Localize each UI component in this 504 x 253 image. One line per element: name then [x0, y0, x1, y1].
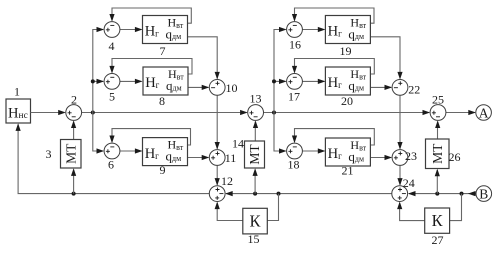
- summing junction 18: [287, 143, 303, 171]
- wire block 21 output to junction 23: [370, 157, 391, 159]
- summing junction 16: [287, 22, 303, 52]
- terminal A: [476, 105, 492, 121]
- wire block 7 output down to junction 10: [188, 37, 218, 79]
- svg-text:19: 19: [340, 44, 352, 58]
- wire junction 6 to block 9: [120, 150, 142, 152]
- wire Нвт feedback loop of block 21: [295, 129, 375, 145]
- svg-text:12: 12: [221, 174, 233, 188]
- block 15 К: [243, 208, 267, 234]
- svg-text:К: К: [432, 211, 444, 230]
- wire Нвт feedback loop of block 9: [112, 129, 191, 145]
- wire junction 18 to block 21: [302, 150, 324, 152]
- block 1 Ннс (input head block): [6, 99, 31, 123]
- summing junction 6: [104, 143, 120, 171]
- wire К 15 output to junction 12: [217, 203, 243, 221]
- wire junction 22 to junction 23 (crosses main bus): [399, 95, 401, 148]
- summing junction 24: [392, 176, 415, 202]
- svg-text:3: 3: [46, 147, 52, 161]
- block 7 Нг/Нвт/qдм: [143, 15, 188, 58]
- wire block 20 output to junction 22: [370, 86, 391, 88]
- svg-text:20: 20: [341, 94, 353, 108]
- wire junction 17 to block 20: [302, 80, 324, 82]
- svg-text:27: 27: [432, 233, 444, 247]
- wire vertical bus down to junction 18: [274, 113, 286, 152]
- block 14 МТ: [245, 141, 265, 168]
- node feeding МТ 3: [72, 192, 76, 196]
- svg-text:10: 10: [226, 81, 238, 95]
- wire junction 4 to block 7: [120, 29, 142, 31]
- svg-text:5: 5: [109, 89, 115, 103]
- wire branch down to К 15 input: [267, 194, 278, 221]
- wire vertical bus up to junction 4: [93, 30, 103, 113]
- wire Нвт feedback loop of block 7: [112, 8, 191, 23]
- wire Нвт feedback loop of block 8: [112, 59, 192, 75]
- wire branch to junction 5: [93, 80, 103, 82]
- wire vertical bus up to junction 16: [274, 30, 286, 113]
- wire junction 13 to junction 25 (main bus): [264, 112, 430, 114]
- svg-text:11: 11: [225, 151, 237, 165]
- svg-text:8: 8: [159, 94, 165, 108]
- block 26 МТ: [426, 139, 450, 169]
- node feeding К 27: [460, 192, 464, 196]
- svg-text:6: 6: [108, 157, 114, 171]
- wire Нвт feedback loop of block 20: [295, 59, 375, 75]
- wire МТ 3 output to junction 2: [73, 122, 75, 140]
- wire block 19 output down to junction 22: [370, 37, 400, 79]
- svg-text:МТ: МТ: [63, 143, 78, 164]
- summing junction 25: [430, 92, 446, 120]
- block 20 Нг/Нвт/qдм: [325, 67, 370, 108]
- node after junction 13: [272, 111, 276, 115]
- node on left vertical bus at row 2: [91, 79, 95, 83]
- svg-text:МТ: МТ: [247, 144, 262, 165]
- block 27 К: [425, 208, 450, 233]
- wire junction 16 to block 19: [302, 29, 324, 31]
- wire junction 11 to junction 12: [216, 165, 218, 184]
- terminal B: [476, 186, 492, 202]
- wire branch up to МТ 14 input: [254, 170, 256, 194]
- svg-text:МТ: МТ: [430, 143, 445, 164]
- svg-text:22: 22: [408, 83, 420, 97]
- svg-text:18: 18: [288, 157, 300, 171]
- svg-text:26: 26: [449, 150, 461, 164]
- node on right vertical bus at row 2: [272, 79, 276, 83]
- wire junction 25 to terminal A: [446, 112, 475, 114]
- summing junction 22: [392, 80, 420, 97]
- wire junction 5 to block 8: [120, 80, 142, 82]
- svg-text:14: 14: [232, 137, 244, 151]
- svg-text:А: А: [479, 105, 489, 120]
- summing junction 4: [104, 22, 120, 53]
- node feeding МТ 14: [253, 192, 257, 196]
- summing junction 10: [209, 80, 237, 96]
- svg-text:В: В: [479, 186, 488, 201]
- summing junction 5: [104, 74, 120, 104]
- block 8 Нг/Нвт/qдм: [143, 67, 188, 108]
- svg-text:2: 2: [71, 93, 77, 107]
- block 9 Нг/Нвт/qдм: [143, 137, 188, 177]
- svg-text:24: 24: [403, 176, 415, 190]
- node feeding К 15: [277, 192, 281, 196]
- wire branch down to К 27 input: [450, 194, 462, 221]
- svg-text:К: К: [250, 212, 262, 231]
- block 19 Нг/Нвт/qдм: [325, 15, 370, 58]
- block 3 МТ: [61, 140, 82, 169]
- wire junction 2 to junction 13 (main bus): [82, 112, 247, 114]
- wire branch up to МТ 3 input: [73, 170, 75, 194]
- wire vertical bus down to junction 6: [93, 113, 103, 152]
- wire block1 output to junction 2: [31, 112, 61, 114]
- wire junction 24 output to junction 12: [226, 193, 392, 195]
- svg-text:9: 9: [160, 163, 166, 177]
- summing junction 23: [392, 149, 417, 165]
- node after junction 2: [91, 111, 95, 115]
- wire МТ 14 output to junction 13: [254, 122, 256, 142]
- wire junction 12 output to block 1 bottom input: [18, 125, 209, 194]
- svg-text:1: 1: [14, 85, 20, 99]
- svg-text:23: 23: [405, 149, 417, 163]
- svg-text:13: 13: [250, 92, 262, 106]
- svg-text:4: 4: [109, 39, 115, 53]
- wire terminal B to junction 24: [409, 193, 476, 195]
- svg-text:21: 21: [342, 163, 354, 177]
- wire branch to junction 17: [274, 80, 286, 82]
- summing junction 17: [287, 74, 303, 104]
- wire junction 23 to junction 24: [399, 165, 401, 184]
- svg-text:7: 7: [160, 44, 166, 58]
- summing junction 2: [66, 93, 82, 121]
- block 21 Нг/Нвт/qдм: [325, 138, 370, 178]
- summing junction 11: [209, 150, 236, 166]
- node feeding МТ 26: [435, 192, 439, 196]
- svg-text:17: 17: [288, 89, 300, 103]
- svg-text:25: 25: [432, 92, 444, 106]
- wire block 8 output to junction 10: [188, 86, 208, 88]
- wire МТ 26 output to junction 25: [437, 122, 439, 140]
- wire junction 10 to junction 11: [216, 95, 218, 148]
- svg-text:15: 15: [248, 232, 260, 246]
- wire Нвт feedback loop of block 19: [295, 8, 375, 23]
- arrow direction from B: [468, 191, 476, 196]
- summing junction 13: [248, 92, 264, 121]
- wire К 27 output to junction 24: [400, 203, 425, 221]
- wire branch up to МТ 26 input: [436, 170, 438, 194]
- svg-text:16: 16: [289, 37, 301, 51]
- summing junction 12: [209, 174, 233, 202]
- wire block 9 output to junction 11: [187, 157, 208, 159]
